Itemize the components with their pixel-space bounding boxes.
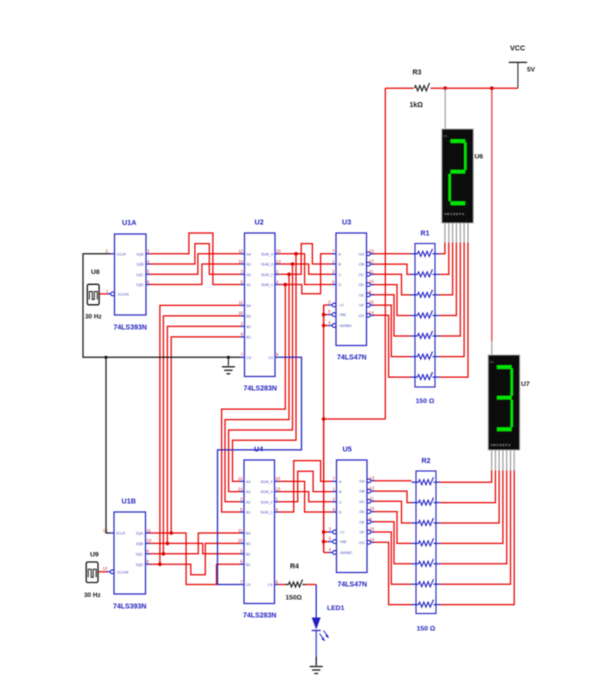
- svg-text:7: 7: [333, 476, 336, 481]
- node junction above U7: [490, 86, 494, 90]
- wire branch down to U1B CLR (black): [106, 357, 110, 533]
- svg-text:B4: B4: [246, 532, 250, 536]
- svg-text:OF: OF: [359, 304, 365, 308]
- svg-text:3: 3: [328, 300, 331, 305]
- wire U5 BI stub: [324, 419, 329, 553]
- wire U2 SUM1 to U3 A (bottom bump): [279, 254, 332, 294]
- svg-text:U5: U5: [343, 445, 352, 454]
- svg-text:4: 4: [328, 320, 331, 325]
- svg-text:VCC: VCC: [510, 44, 525, 53]
- svg-text:15: 15: [369, 300, 374, 305]
- svg-text:1QB: 1QB: [136, 263, 144, 267]
- decoder U3: [328, 218, 374, 362]
- wire U5 OC to R2 row 3: [373, 501, 412, 523]
- wire U2 C4 to U4 C0 (carry): [218, 357, 302, 584]
- svg-text:C0: C0: [246, 583, 251, 587]
- svg-text:30 Hz: 30 Hz: [85, 314, 102, 321]
- svg-text:A4: A4: [246, 480, 250, 484]
- node U5 LT junction: [322, 530, 326, 534]
- svg-text:~LT: ~LT: [339, 304, 345, 308]
- svg-text:B3: B3: [246, 542, 250, 546]
- wire U3 OB to R1 row 2: [372, 264, 411, 274]
- svg-text:12: 12: [370, 486, 375, 491]
- wire U3 RBI stub: [324, 314, 328, 316]
- wire VCC rail from R3 to VCC: [431, 87, 518, 89]
- svg-text:B1: B1: [246, 563, 250, 567]
- wire U5 LT stub: [324, 531, 329, 533]
- svg-text:R3: R3: [413, 70, 422, 77]
- svg-text:10: 10: [370, 506, 375, 511]
- svg-text:11: 11: [238, 528, 243, 533]
- svg-text:6: 6: [147, 279, 150, 284]
- svg-text:2: 2: [332, 269, 335, 274]
- wire U4 SUM2 to U5 B (inner top bump): [279, 471, 333, 502]
- svg-text:12: 12: [238, 476, 243, 481]
- wire U7 pin 6 to R2 row 6: [441, 471, 511, 585]
- svg-text:7: 7: [241, 352, 244, 357]
- svg-text:B: B: [339, 490, 342, 494]
- svg-text:B1: B1: [247, 336, 251, 340]
- svg-text:A B C D E F G: A B C D E F G: [491, 443, 512, 447]
- node U2 SUM3 junction: [291, 262, 295, 266]
- wire U5 OB to R2 row 2: [373, 491, 412, 503]
- svg-text:A: A: [339, 252, 342, 256]
- node black net junction at U1B branch: [104, 356, 107, 359]
- wire U5 OE to R2 row 5: [373, 522, 412, 564]
- svg-text:5: 5: [147, 269, 150, 274]
- svg-text:2: 2: [240, 549, 243, 554]
- wire U3 LT stub to net: [324, 305, 328, 326]
- wire U4 SUM1 to U5 A (outer top bump): [279, 461, 333, 512]
- resistor R3: [410, 70, 430, 110]
- wire R4 to LED1: [306, 585, 317, 618]
- svg-text:7: 7: [332, 249, 335, 254]
- svg-text:OG: OG: [359, 541, 365, 545]
- svg-text:U3: U3: [342, 218, 351, 227]
- wire U2 SUM4 to U3 D: [279, 254, 332, 285]
- svg-text:3: 3: [241, 269, 244, 274]
- wire U3 OD to R1 row 4: [372, 285, 411, 316]
- svg-text:74LS393N: 74LS393N: [114, 325, 147, 332]
- wire U4 SUM4 to U5 D: [279, 481, 333, 512]
- svg-text:4: 4: [329, 547, 332, 552]
- svg-text:150Ω: 150Ω: [286, 595, 303, 602]
- svg-text:U6: U6: [475, 154, 484, 161]
- svg-text:2CLR: 2CLR: [116, 532, 126, 536]
- svg-text:C: C: [339, 500, 342, 504]
- svg-text:OC: OC: [359, 273, 365, 277]
- svg-text:11: 11: [239, 300, 244, 305]
- wire U1B 2QB to U4 B2 (down jog): [150, 543, 240, 553]
- svg-text:B: B: [339, 263, 342, 267]
- svg-text:~BI/RBO: ~BI/RBO: [339, 324, 353, 328]
- wire U6 pin 1 to R1 row 1: [440, 243, 445, 254]
- svg-text:1: 1: [276, 269, 279, 274]
- power VCC symbol: [509, 44, 536, 89]
- svg-text:A: A: [339, 480, 342, 484]
- svg-text:2: 2: [106, 249, 109, 254]
- 7-segment display U6: [442, 129, 484, 243]
- wire U2 SUM2 to U3 B (top bump): [279, 244, 332, 275]
- node U3 BI junction: [322, 324, 326, 328]
- node black net junction at ground: [227, 356, 230, 359]
- svg-text:C: C: [339, 273, 342, 277]
- adder U4: [238, 445, 281, 620]
- node junction above U6: [443, 86, 447, 90]
- svg-text:A3: A3: [246, 490, 250, 494]
- svg-text:8: 8: [147, 559, 150, 564]
- svg-text:1: 1: [106, 288, 109, 293]
- node U1B 2QC junction: [162, 552, 166, 556]
- node U1B 2QB junction: [166, 542, 170, 546]
- svg-text:1QA: 1QA: [136, 252, 144, 256]
- svg-text:OB: OB: [359, 263, 365, 267]
- svg-text:A2: A2: [247, 273, 251, 277]
- svg-text:1: 1: [332, 259, 335, 264]
- wire U3 OA to R1 row1: [372, 253, 411, 255]
- decoder U5: [329, 445, 375, 589]
- wire U2 SUM3 down to U4 A3: [229, 264, 293, 492]
- svg-text:10: 10: [276, 476, 281, 481]
- wire U7 pin 1 to R2 row 1: [441, 471, 492, 483]
- node U1B 2QD junction: [158, 562, 162, 566]
- wire U4 C4 to R4: [278, 584, 286, 586]
- wire U3 OF to R1 row 6: [372, 305, 411, 357]
- svg-text:6: 6: [241, 332, 244, 337]
- svg-text:1: 1: [333, 486, 336, 491]
- svg-text:2QD: 2QD: [136, 563, 144, 567]
- wire U3 BI stub: [324, 325, 328, 327]
- svg-text:C4: C4: [268, 356, 273, 360]
- svg-text:OG: OG: [358, 314, 364, 318]
- svg-text:11: 11: [147, 528, 152, 533]
- svg-text:74LS47N: 74LS47N: [337, 355, 367, 362]
- wire U1B 2QC up to U2 B3: [163, 316, 240, 554]
- svg-text:5: 5: [240, 507, 243, 512]
- wire R3 left lead to pull-up vertical: [385, 87, 413, 89]
- svg-text:2QA: 2QA: [136, 532, 144, 536]
- wire BI net vertical U3 to U5: [323, 305, 325, 553]
- svg-text:OA: OA: [359, 479, 365, 483]
- svg-text:3: 3: [240, 497, 243, 502]
- ground symbol under LED1: [310, 657, 323, 674]
- svg-text:1QC: 1QC: [136, 273, 144, 277]
- ground symbol near U2: [222, 357, 235, 374]
- svg-text:15: 15: [238, 311, 243, 316]
- 7-segment display U7: [488, 355, 530, 471]
- svg-text:R1: R1: [421, 231, 430, 238]
- wire U1A CLR net (black): [83, 254, 241, 357]
- svg-text:1: 1: [276, 497, 279, 502]
- svg-text:2CLKB: 2CLKB: [117, 571, 129, 575]
- svg-text:A3: A3: [247, 263, 251, 267]
- svg-text:5: 5: [329, 536, 332, 541]
- wire U4 SUM3 to U5 C: [279, 492, 333, 502]
- svg-text:U8: U8: [91, 269, 100, 276]
- svg-text:9: 9: [147, 549, 150, 554]
- svg-text:11: 11: [369, 269, 374, 274]
- svg-text:30 Hz: 30 Hz: [84, 592, 101, 599]
- svg-text:SUM_2: SUM_2: [261, 273, 273, 277]
- wire U7 common anode lead (red part): [491, 88, 493, 341]
- svg-text:U1B: U1B: [122, 497, 136, 506]
- svg-text:6: 6: [333, 507, 336, 512]
- counter U1B: [103, 497, 152, 611]
- svg-text:C0: C0: [247, 356, 252, 360]
- wire U3 OC to R1 row 3: [372, 274, 411, 295]
- clock source U9: [84, 552, 101, 600]
- svg-text:~RBI: ~RBI: [339, 313, 347, 317]
- node U2 SUM1 junction: [284, 283, 288, 287]
- svg-text:OA: OA: [359, 252, 365, 256]
- svg-text:14: 14: [238, 259, 243, 264]
- wire U1B 2QA to U4 B1 (outer bottom bump): [150, 533, 240, 585]
- svg-text:SUM_2: SUM_2: [261, 500, 273, 504]
- svg-text:14: 14: [370, 537, 375, 542]
- svg-text:A4: A4: [247, 252, 251, 256]
- svg-text:11: 11: [370, 496, 375, 501]
- wire U1A 1QC to U2 A4 (up jog): [150, 254, 241, 274]
- svg-text:4: 4: [276, 279, 279, 284]
- svg-text:5: 5: [241, 279, 244, 284]
- svg-text:OF: OF: [360, 531, 366, 535]
- svg-text:14: 14: [369, 310, 374, 315]
- svg-text:2QC: 2QC: [136, 552, 144, 556]
- wire U3 OG to R1 row 7: [372, 315, 411, 377]
- wire U5 OF to R2 row 6: [373, 532, 412, 584]
- resistor R4: [286, 564, 306, 602]
- svg-text:D: D: [339, 283, 342, 287]
- wire U7 pin 5 to R2 row 5: [441, 471, 507, 564]
- wire U5 OG to R2 row 7: [373, 542, 412, 604]
- wire U9 to U1B clock: [98, 571, 107, 573]
- svg-text:D: D: [339, 511, 342, 515]
- svg-text:9: 9: [276, 352, 279, 357]
- svg-text:9: 9: [369, 289, 372, 294]
- svg-text:15: 15: [370, 527, 375, 532]
- svg-text:U4: U4: [254, 445, 263, 454]
- wire U6 pin 4 to R1 row 4: [440, 243, 457, 316]
- svg-text:A1: A1: [247, 283, 251, 287]
- svg-text:9: 9: [276, 579, 279, 584]
- svg-text:C4: C4: [268, 583, 273, 587]
- wire U7 common anode lead (gray part): [491, 341, 493, 355]
- svg-text:CA: CA: [443, 134, 447, 138]
- svg-text:A1: A1: [246, 511, 250, 515]
- wire U6 pin 7 to R1 row 7: [440, 243, 469, 378]
- resistor pack R1: [411, 231, 440, 406]
- svg-text:R2: R2: [422, 458, 431, 465]
- svg-text:1QD: 1QD: [136, 283, 144, 287]
- wire U1B 2QD up to U2 B4: [160, 305, 241, 564]
- wire U7 pin 4 to R2 row 4: [441, 471, 503, 544]
- svg-text:1CLR: 1CLR: [117, 252, 127, 256]
- wire U7 pin 7 to R2 row 7: [441, 471, 515, 605]
- svg-text:LED1: LED1: [327, 605, 345, 612]
- wire U5 OD to R2 row 4: [373, 512, 412, 544]
- svg-text:U1A: U1A: [122, 218, 136, 227]
- wire U6 pin 2 to R1 row 2: [440, 243, 449, 275]
- wire U1A 1QB to U2 A2 (inner bump): [150, 244, 241, 275]
- svg-text:74LS283N: 74LS283N: [244, 386, 277, 393]
- svg-text:OE: OE: [359, 520, 365, 524]
- wire U3 OE to R1 row 5: [372, 295, 411, 336]
- svg-text:2: 2: [241, 321, 244, 326]
- svg-text:OB: OB: [359, 490, 365, 494]
- node U3 RBI junction: [322, 313, 326, 317]
- adder U2: [238, 218, 281, 393]
- svg-text:B4: B4: [247, 304, 251, 308]
- svg-text:U9: U9: [90, 552, 99, 559]
- wire junction horizontal to BI net: [324, 418, 386, 420]
- wire U2 SUM1 down to U4 A1: [222, 285, 286, 513]
- svg-text:150 Ω: 150 Ω: [417, 626, 436, 633]
- svg-text:B2: B2: [247, 325, 251, 329]
- svg-text:OD: OD: [359, 510, 365, 514]
- svg-text:150 Ω: 150 Ω: [416, 398, 435, 405]
- svg-text:R4: R4: [290, 564, 299, 571]
- resistor pack R2: [412, 458, 441, 633]
- svg-text:10: 10: [147, 538, 152, 543]
- svg-text:12: 12: [238, 249, 243, 254]
- wire U5 OA to R2 row1: [373, 480, 412, 482]
- svg-text:CA: CA: [489, 360, 493, 364]
- svg-text:~BI/RBO: ~BI/RBO: [339, 551, 353, 555]
- wire U6 common anode lead: [444, 88, 446, 129]
- svg-text:B3: B3: [247, 315, 251, 319]
- svg-text:6: 6: [240, 559, 243, 564]
- svg-text:74LS47N: 74LS47N: [338, 582, 368, 589]
- svg-text:SUM_1: SUM_1: [261, 511, 273, 515]
- svg-text:SUM_3: SUM_3: [261, 263, 273, 267]
- svg-text:4: 4: [276, 507, 279, 512]
- svg-text:13: 13: [370, 475, 375, 480]
- svg-text:U2: U2: [255, 218, 264, 227]
- svg-text:SUM_3: SUM_3: [261, 490, 273, 494]
- node U2 SUM2 junction: [287, 273, 291, 277]
- svg-text:3: 3: [329, 527, 332, 532]
- svg-text:OD: OD: [359, 283, 365, 287]
- wire U5 RBI stub: [324, 541, 329, 543]
- svg-text:74LS393N: 74LS393N: [113, 604, 146, 611]
- wire U1B 2QB up to U2 B2: [167, 326, 240, 543]
- svg-text:~LT: ~LT: [339, 531, 345, 535]
- node junction on BI net: [322, 417, 326, 421]
- wire U1B 2QA up to U2 B1: [171, 337, 240, 533]
- svg-text:1kΩ: 1kΩ: [410, 102, 424, 109]
- svg-text:2QB: 2QB: [136, 542, 144, 546]
- svg-text:5V: 5V: [527, 67, 536, 74]
- node U1B 2QA junction: [169, 531, 173, 535]
- wire U7 pin 3 to R2 row 3: [441, 471, 500, 524]
- svg-text:15: 15: [238, 538, 243, 543]
- svg-text:2: 2: [333, 497, 336, 502]
- LED LED1: [312, 605, 345, 666]
- wire pull-up vertical down to junction: [384, 88, 386, 419]
- svg-text:7: 7: [240, 579, 243, 584]
- svg-text:OC: OC: [359, 500, 365, 504]
- svg-text:SUM_4: SUM_4: [261, 252, 273, 256]
- svg-text:3: 3: [147, 249, 150, 254]
- svg-text:13: 13: [276, 259, 281, 264]
- svg-text:OE: OE: [359, 293, 365, 297]
- svg-text:A B C D E F G: A B C D E F G: [444, 212, 465, 216]
- wire U2 SUM4 down to U4 A4: [233, 254, 297, 482]
- svg-text:10: 10: [276, 249, 281, 254]
- node U2 SUM4 junction: [294, 252, 298, 256]
- svg-text:12: 12: [369, 259, 374, 264]
- svg-text:SUM_4: SUM_4: [261, 480, 273, 484]
- wire U6 pin 6 to R1 row 6: [440, 243, 465, 357]
- svg-text:5: 5: [328, 309, 331, 314]
- svg-text:13: 13: [276, 486, 281, 491]
- svg-text:6: 6: [332, 279, 335, 284]
- svg-text:1CLKA: 1CLKA: [118, 293, 130, 297]
- svg-text:9: 9: [370, 516, 373, 521]
- wire U6 pin 5 to R1 row 5: [440, 243, 461, 337]
- svg-text:10: 10: [369, 279, 374, 284]
- wire U1A 1QA to U2 A1 (outer bump): [150, 233, 241, 285]
- wire U1B 2QD to U4 B3 (inner bottom bump): [150, 543, 240, 574]
- wire U2 SUM2 down to U4 A2: [225, 274, 289, 502]
- svg-text:14: 14: [238, 486, 243, 491]
- wire U7 pin 2 to R2 row 2: [441, 471, 496, 503]
- svg-text:~RBI: ~RBI: [339, 540, 347, 544]
- wire U8 to U1A clock: [99, 293, 107, 295]
- counter U1A: [106, 218, 150, 332]
- svg-text:U7: U7: [521, 381, 530, 388]
- svg-text:13: 13: [103, 566, 108, 571]
- svg-text:4: 4: [147, 259, 150, 264]
- wire U2 SUM3 to U3 C: [279, 264, 332, 274]
- svg-text:74LS283N: 74LS283N: [243, 613, 276, 620]
- wire U1B 2QC to U4 B4 (up jog): [150, 533, 240, 554]
- wire U1A 1QD to U2 A3 (up jog): [150, 264, 241, 285]
- svg-text:A2: A2: [246, 500, 250, 504]
- svg-text:13: 13: [369, 248, 374, 253]
- wire U6 pin 3 to R1 row 3: [440, 243, 453, 295]
- svg-text:SUM_1: SUM_1: [261, 283, 273, 287]
- clock source U8: [85, 269, 102, 321]
- svg-text:B2: B2: [246, 552, 250, 556]
- node U5 RBI junction: [322, 540, 326, 544]
